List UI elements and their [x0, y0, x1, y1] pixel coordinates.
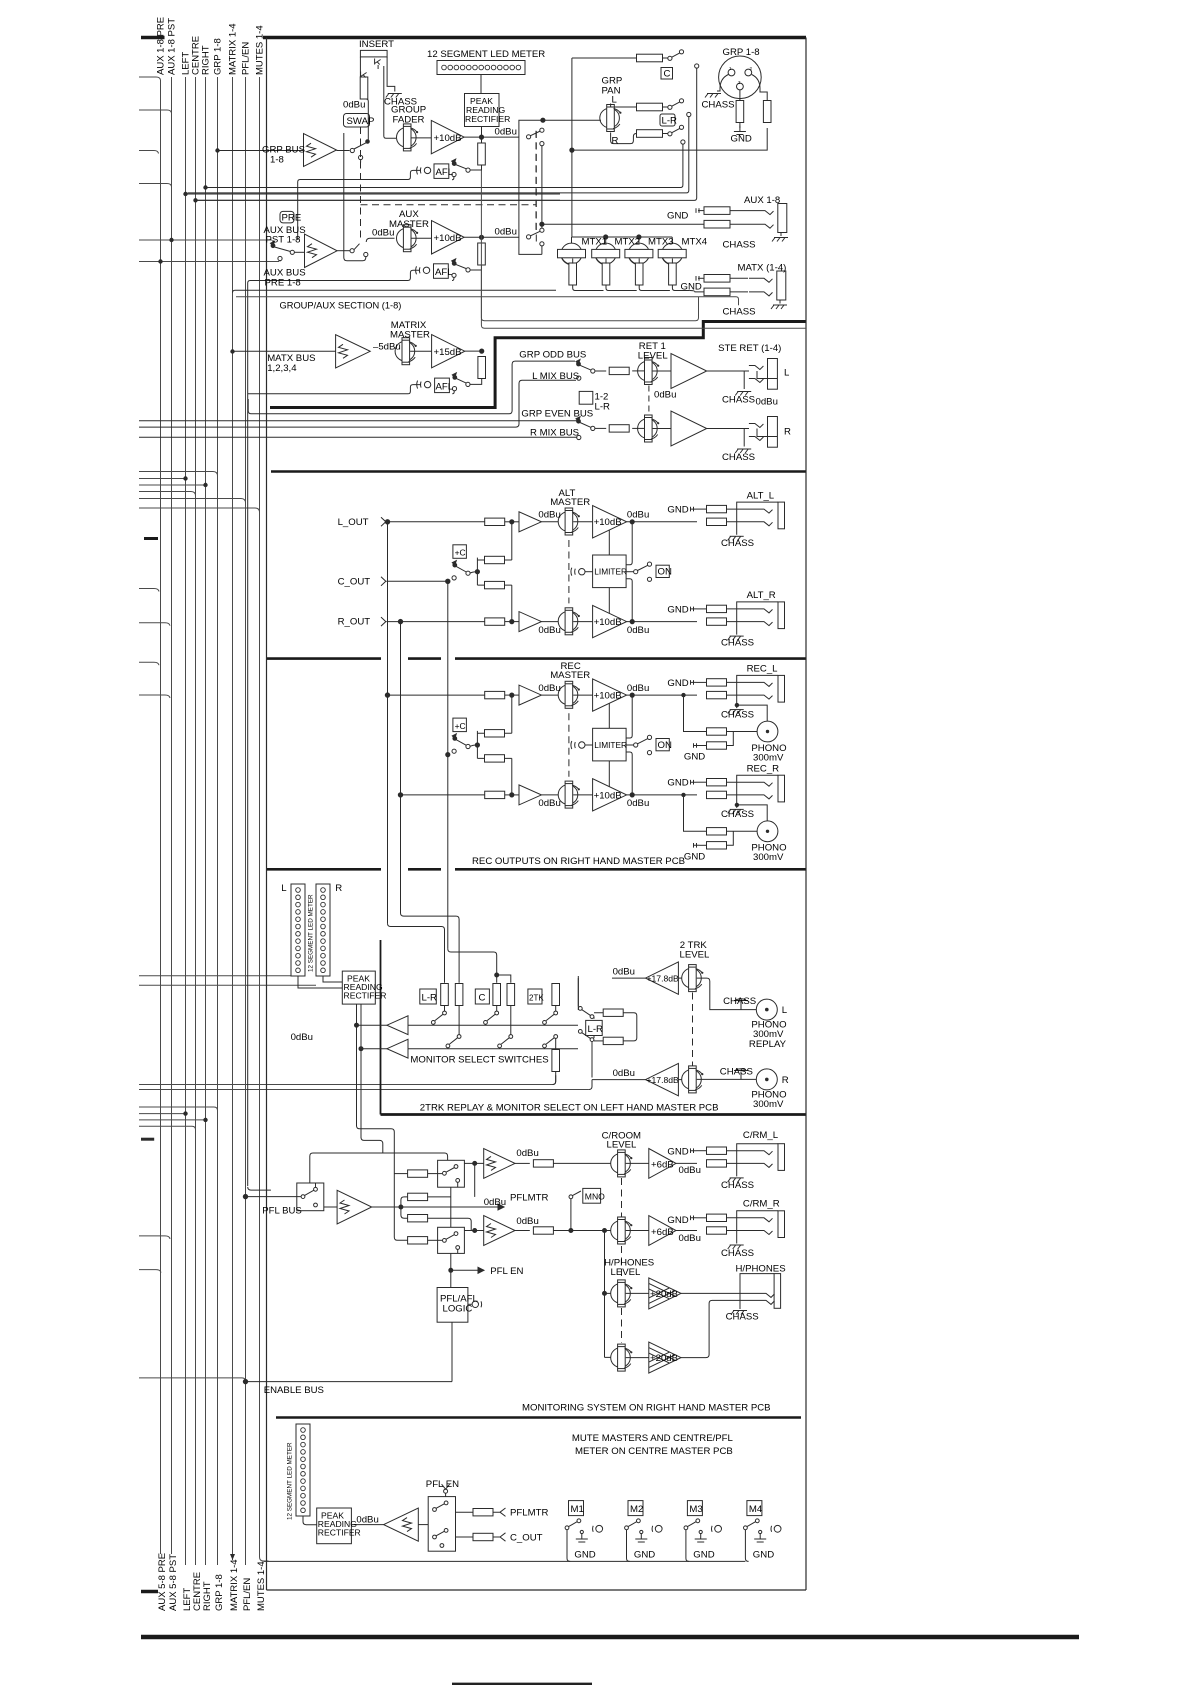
svg-text:GND: GND	[667, 505, 688, 516]
svg-text:2TRK REPLAY & MONITOR SELECT O: 2TRK REPLAY & MONITOR SELECT ON LEFT HAN…	[420, 1103, 719, 1114]
svg-text:AFL: AFL	[436, 382, 454, 393]
svg-text:PFL/EN: PFL/EN	[242, 1578, 253, 1611]
svg-text:L: L	[782, 1005, 788, 1016]
svg-text:GRP 1-8: GRP 1-8	[214, 1574, 225, 1611]
svg-text:300mV: 300mV	[753, 1099, 784, 1110]
svg-text:0dBu: 0dBu	[627, 798, 649, 809]
svg-text:GND: GND	[634, 1550, 655, 1561]
svg-text:ON: ON	[658, 567, 672, 578]
svg-text:SWAP: SWAP	[347, 116, 375, 127]
svg-text:PFL EN: PFL EN	[426, 1479, 459, 1490]
svg-text:L: L	[612, 95, 618, 106]
svg-text:1,2,3,4: 1,2,3,4	[267, 363, 297, 374]
svg-text:AUX 1-8 PRE: AUX 1-8 PRE	[156, 17, 167, 75]
svg-text:PFLMTR: PFLMTR	[510, 1508, 548, 1519]
svg-text:0dBu: 0dBu	[613, 1068, 635, 1079]
svg-text:STE RET (1-4): STE RET (1-4)	[718, 343, 781, 354]
svg-text:LOGIC: LOGIC	[443, 1304, 473, 1315]
svg-text:300mV: 300mV	[753, 852, 784, 863]
svg-text:CHASS: CHASS	[721, 638, 754, 649]
svg-text:R: R	[612, 136, 619, 147]
svg-text:CHASS: CHASS	[723, 240, 756, 251]
svg-text:MTX3: MTX3	[648, 237, 674, 248]
svg-text:0dBu: 0dBu	[495, 227, 517, 238]
svg-text:MUTE MASTERS AND CENTRE/PFL: MUTE MASTERS AND CENTRE/PFL	[572, 1433, 734, 1444]
svg-text:FADER: FADER	[393, 115, 425, 126]
svg-text:2: 2	[750, 66, 753, 71]
svg-text:+15dB: +15dB	[434, 347, 462, 358]
svg-text:+10dB: +10dB	[594, 790, 622, 801]
svg-text:CHASS: CHASS	[723, 307, 756, 318]
svg-text:M4: M4	[749, 1504, 763, 1515]
svg-text:0dBu: 0dBu	[679, 1233, 701, 1244]
svg-text:MASTER: MASTER	[550, 497, 590, 508]
svg-text:3: 3	[738, 80, 741, 85]
svg-text:CHASS: CHASS	[721, 1180, 754, 1191]
svg-text:PFLMTR: PFLMTR	[510, 1192, 548, 1203]
svg-text:GND: GND	[667, 1215, 688, 1226]
svg-text:MONITOR SELECT SWITCHES: MONITOR SELECT SWITCHES	[410, 1055, 548, 1066]
svg-text:+17.8dB: +17.8dB	[647, 1075, 680, 1085]
svg-text:CHASS: CHASS	[721, 538, 754, 549]
svg-text:MONITORING SYSTEM ON RIGHT HAN: MONITORING SYSTEM ON RIGHT HAND MASTER P…	[522, 1402, 771, 1413]
svg-text:MNO: MNO	[585, 1192, 605, 1202]
svg-text:METER ON CENTRE MASTER PCB: METER ON CENTRE MASTER PCB	[575, 1446, 733, 1457]
svg-text:PFL BUS: PFL BUS	[262, 1206, 302, 1217]
svg-text:REC_L: REC_L	[747, 664, 779, 675]
svg-text:LEVEL: LEVEL	[611, 1267, 642, 1278]
svg-text:CHASS: CHASS	[726, 1312, 759, 1323]
svg-text:GND: GND	[684, 851, 705, 862]
svg-text:CHASS: CHASS	[722, 395, 755, 406]
svg-text:AUX 5-8 PRE: AUX 5-8 PRE	[157, 1553, 168, 1611]
svg-text:CHASS: CHASS	[702, 100, 735, 111]
svg-text:+C: +C	[455, 548, 466, 558]
svg-text:0dBu: 0dBu	[538, 798, 560, 809]
svg-text:L MIX BUS: L MIX BUS	[532, 371, 579, 382]
svg-text:0dBu: 0dBu	[613, 966, 635, 977]
svg-text:+10dB: +10dB	[594, 617, 622, 628]
svg-text:ENABLE BUS: ENABLE BUS	[264, 1385, 324, 1396]
svg-text:0dBu: 0dBu	[538, 625, 560, 636]
svg-text:GND: GND	[693, 1550, 714, 1561]
svg-text:0dBu: 0dBu	[627, 510, 649, 521]
svg-text:M1: M1	[571, 1504, 584, 1515]
svg-text:L-R: L-R	[588, 1024, 604, 1035]
svg-text:CHASS: CHASS	[723, 996, 756, 1007]
svg-text:ALT_R: ALT_R	[747, 590, 776, 601]
svg-text:MATRIX 1-4: MATRIX 1-4	[228, 23, 239, 75]
svg-text:GND: GND	[667, 211, 688, 222]
svg-text:RECTIFIER: RECTIFIER	[465, 114, 510, 124]
svg-text:12 SEGMENT LED METER: 12 SEGMENT LED METER	[427, 49, 545, 60]
svg-text:MATX (1-4): MATX (1-4)	[738, 263, 787, 274]
svg-text:PST 1-8: PST 1-8	[266, 235, 301, 246]
svg-text:INSERT: INSERT	[359, 39, 394, 50]
svg-text:L-R: L-R	[662, 116, 678, 127]
svg-text:0dBu: 0dBu	[627, 625, 649, 636]
svg-text:1: 1	[729, 66, 732, 71]
svg-text:REPLAY: REPLAY	[749, 1039, 787, 1050]
svg-text:RECTIFER: RECTIFER	[344, 991, 387, 1001]
svg-text:R: R	[782, 1075, 789, 1086]
svg-text:300mV: 300mV	[753, 752, 784, 763]
svg-text:REC_R: REC_R	[747, 763, 780, 774]
svg-text:+10dB: +10dB	[594, 517, 622, 528]
svg-text:0dBu: 0dBu	[654, 390, 676, 401]
svg-text:GND: GND	[681, 282, 702, 293]
svg-text:ON: ON	[658, 740, 672, 751]
svg-text:MASTER: MASTER	[550, 670, 590, 681]
svg-text:+10dB: +10dB	[434, 133, 462, 144]
svg-text:AFL: AFL	[436, 167, 454, 178]
svg-text:GND: GND	[684, 752, 705, 763]
svg-text:GND: GND	[753, 1550, 774, 1561]
svg-text:L-R: L-R	[422, 993, 438, 1004]
svg-text:0dBu: 0dBu	[484, 1197, 506, 1208]
svg-text:R_OUT: R_OUT	[338, 617, 371, 628]
svg-text:ALT_L: ALT_L	[747, 490, 775, 501]
svg-text:0dBu: 0dBu	[516, 1148, 538, 1159]
svg-text:RIGHT: RIGHT	[202, 1581, 213, 1611]
svg-text:RIGHT: RIGHT	[201, 45, 212, 75]
svg-text:12 SEGMENT LED METER: 12 SEGMENT LED METER	[308, 894, 315, 972]
svg-text:MATRIX 1-4: MATRIX 1-4	[229, 1559, 240, 1611]
svg-text:L: L	[784, 368, 790, 379]
svg-text:MASTER: MASTER	[390, 330, 430, 341]
svg-text:AUX 1-8: AUX 1-8	[744, 195, 780, 206]
svg-text:0dBu: 0dBu	[756, 397, 778, 408]
svg-text:MTX2: MTX2	[615, 237, 641, 248]
svg-text:L-R: L-R	[595, 402, 611, 413]
svg-text:GND: GND	[667, 1147, 688, 1158]
svg-text:+10dB: +10dB	[594, 691, 622, 702]
svg-text:CHASS: CHASS	[721, 709, 754, 720]
svg-text:GND: GND	[574, 1550, 595, 1561]
svg-text:GRP ODD BUS: GRP ODD BUS	[519, 350, 586, 361]
svg-text:+10dB: +10dB	[434, 233, 462, 244]
svg-text:2TK: 2TK	[529, 994, 544, 1003]
svg-text:0dBu: 0dBu	[538, 510, 560, 521]
svg-text:CHASS: CHASS	[721, 809, 754, 820]
svg-text:0dBu: 0dBu	[291, 1032, 313, 1043]
svg-text:M3: M3	[689, 1504, 702, 1515]
svg-text:GRP EVEN BUS: GRP EVEN BUS	[521, 409, 593, 420]
svg-text:0dBu: 0dBu	[516, 1216, 538, 1227]
svg-text:M2: M2	[630, 1504, 643, 1515]
svg-text:CHASS: CHASS	[721, 1248, 754, 1259]
svg-text:0dBu: 0dBu	[495, 127, 517, 138]
svg-text:L_OUT: L_OUT	[338, 517, 369, 528]
svg-text:12 SEGMENT LED METER: 12 SEGMENT LED METER	[287, 1442, 294, 1520]
svg-text:0dBu: 0dBu	[679, 1165, 701, 1176]
svg-text:AUX 5-8 PST: AUX 5-8 PST	[168, 1554, 179, 1611]
svg-text:+20dB: +20dB	[650, 1289, 678, 1300]
svg-text:GRP 1-8: GRP 1-8	[723, 47, 760, 58]
svg-text:LEVEL: LEVEL	[680, 950, 711, 961]
svg-text:1-8: 1-8	[270, 155, 284, 166]
svg-text:+6dB: +6dB	[651, 1159, 674, 1170]
svg-text:GND: GND	[667, 778, 688, 789]
svg-text:+17.8dB: +17.8dB	[647, 974, 680, 984]
svg-text:C: C	[479, 993, 486, 1004]
svg-text:AUX 1-8 PST: AUX 1-8 PST	[167, 18, 178, 75]
svg-text:MTX1: MTX1	[582, 237, 608, 248]
svg-text:C_OUT: C_OUT	[338, 577, 371, 588]
svg-text:PFL/EN: PFL/EN	[241, 42, 252, 75]
svg-text:0dBu: 0dBu	[627, 683, 649, 694]
svg-text:LIMITER: LIMITER	[594, 567, 627, 577]
svg-text:L: L	[281, 883, 287, 894]
svg-text:CHASS: CHASS	[720, 1066, 753, 1077]
svg-text:0dBu: 0dBu	[343, 100, 365, 111]
svg-text:+C: +C	[455, 721, 466, 731]
svg-text:R MIX BUS: R MIX BUS	[530, 427, 579, 438]
svg-text:PRE: PRE	[282, 213, 302, 224]
svg-text:MTX4: MTX4	[682, 237, 708, 248]
svg-text:GRP 1-8: GRP 1-8	[213, 38, 224, 75]
svg-text:GND: GND	[667, 604, 688, 615]
svg-text:R: R	[335, 883, 342, 894]
svg-text:GROUP/AUX SECTION (1-8): GROUP/AUX SECTION (1-8)	[280, 301, 402, 311]
svg-text:–5dBu: –5dBu	[373, 342, 401, 353]
svg-text:+20dB: +20dB	[650, 1353, 678, 1364]
svg-text:C/RM_R: C/RM_R	[743, 1199, 780, 1210]
svg-text:LEVEL: LEVEL	[638, 351, 669, 362]
svg-text:R: R	[784, 427, 791, 438]
svg-text:H/PHONES: H/PHONES	[736, 1263, 786, 1274]
svg-text:AFL: AFL	[435, 267, 453, 278]
svg-text:REC OUTPUTS ON RIGHT HAND MAST: REC OUTPUTS ON RIGHT HAND MASTER PCB	[472, 856, 685, 867]
svg-text:C/RM_L: C/RM_L	[743, 1130, 779, 1141]
svg-text:MUTES 1-4: MUTES 1-4	[256, 1561, 267, 1611]
svg-text:0dBu: 0dBu	[372, 228, 394, 239]
svg-text:LIMITER: LIMITER	[594, 740, 627, 750]
svg-text:GND: GND	[667, 678, 688, 689]
svg-text:PRE 1-8: PRE 1-8	[265, 278, 301, 289]
svg-text:+6dB: +6dB	[651, 1227, 674, 1238]
svg-text:0dBu: 0dBu	[356, 1515, 378, 1526]
svg-text:MASTER: MASTER	[389, 219, 429, 230]
svg-text:C: C	[664, 69, 671, 80]
svg-text:C_OUT: C_OUT	[510, 1533, 543, 1544]
svg-text:CHASS: CHASS	[722, 452, 755, 463]
svg-text:GND: GND	[731, 134, 752, 145]
svg-text:PFL EN: PFL EN	[490, 1266, 523, 1277]
svg-text:LEVEL: LEVEL	[607, 1140, 638, 1151]
svg-text:0dBu: 0dBu	[538, 683, 560, 694]
svg-text:MUTES 1-4: MUTES 1-4	[255, 25, 266, 75]
svg-text:RECTIFER: RECTIFER	[318, 1528, 361, 1538]
